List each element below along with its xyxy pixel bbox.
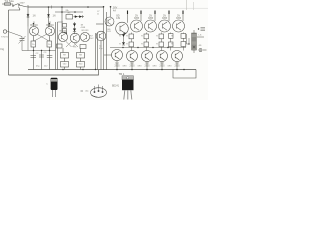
svg-text:33k: 33k (65, 10, 69, 12)
svg-text:R: R (156, 36, 158, 38)
svg-text:775mV: 775mV (1, 37, 8, 39)
svg-text:3055: 3055 (162, 18, 168, 20)
wire x28 lower (27, 27, 29, 51)
diode D6 (73, 29, 76, 32)
svg-text:1k2: 1k2 (90, 38, 94, 40)
wire T1 T2 collectors (34, 24, 50, 27)
diode D8 (122, 42, 125, 45)
node rail junction x88 (87, 6, 89, 8)
wire mid border stub (96, 23, 104, 25)
svg-text:R8: R8 (79, 55, 83, 57)
svg-text:R: R (119, 44, 121, 46)
svg-text:1N: 1N (32, 14, 35, 17)
svg-text:2955: 2955 (174, 66, 180, 68)
wire second rail (55, 11, 83, 13)
svg-text:0R3: 0R3 (168, 65, 173, 67)
svg-text:2955: 2955 (159, 66, 165, 68)
resistor R23 (169, 34, 174, 39)
svg-text:R: R (119, 36, 121, 38)
svg-text:0R3: 0R3 (123, 65, 128, 67)
svg-text:1n: 1n (97, 13, 99, 15)
transistor T10 output (145, 20, 157, 32)
svg-text:3055: 3055 (176, 18, 182, 20)
svg-text:TR 1: TR 1 (119, 72, 125, 76)
svg-text:0R3: 0R3 (153, 65, 158, 67)
pin T8 (127, 11, 129, 23)
svg-text:ebc: ebc (85, 90, 89, 92)
resistor R22 (159, 34, 164, 39)
wire T1 collector (48, 7, 50, 27)
svg-text:1k: 1k (48, 44, 51, 46)
fuse F1 (4, 3, 11, 5)
wire mid border vertical A (103, 6, 105, 70)
diode D2 (47, 14, 50, 17)
svg-text:3055: 3055 (134, 18, 140, 20)
wire inner box top (58, 21, 64, 23)
transistor T17 output low (172, 51, 183, 62)
capacitor elko photo (51, 78, 58, 90)
wire mains to rail (20, 5, 29, 7)
resistor R14 (61, 62, 69, 68)
wire ground rail (28, 69, 196, 71)
transistor T11 output (159, 20, 171, 32)
wire bottom-right box (173, 70, 196, 79)
diode D5 (74, 22, 76, 34)
svg-text:241: 241 (107, 31, 111, 33)
transistor T5 (70, 33, 80, 43)
svg-text:R: R (156, 44, 158, 46)
transistor T3 (58, 32, 67, 41)
svg-text:R6: R6 (74, 46, 78, 48)
svg-text:820: 820 (79, 64, 83, 66)
wire switch down to border (19, 7, 21, 11)
transistor TO-220 photo (122, 76, 134, 80)
transistor T8 output (116, 22, 129, 35)
transistor T4 (80, 32, 89, 41)
transistor T13 output low (112, 50, 123, 61)
wire left border vertical (8, 10, 10, 75)
svg-text:47µ: 47µ (36, 65, 40, 67)
svg-text:R: R (141, 36, 143, 38)
transistor T15 output low (142, 51, 153, 62)
svg-text:R: R (141, 44, 143, 46)
transistor T9 output (131, 20, 143, 32)
wire feedback rail (22, 50, 56, 52)
svg-text:C2: C2 (36, 53, 40, 55)
wire top rail (28, 6, 104, 8)
svg-text:0R3: 0R3 (138, 65, 143, 67)
node ground junctions left (95, 69, 96, 70)
svg-text:4A: 4A (113, 10, 116, 13)
pin T12 (182, 11, 184, 22)
terminal speaker top (201, 28, 206, 31)
resistor R15 (77, 62, 85, 68)
wire top-left border stub (9, 9, 21, 11)
resistor R4 (49, 36, 51, 41)
diode D7 (123, 33, 125, 42)
terminal output (199, 49, 202, 52)
transistor T14 output low (127, 51, 138, 62)
svg-text:Fig: Fig (1, 47, 5, 51)
pin T9 (140, 11, 142, 22)
svg-text:BC546: BC546 (46, 24, 54, 27)
wire base rail (104, 54, 112, 56)
resistor R10 (57, 44, 63, 48)
svg-text:R9: R9 (63, 55, 67, 57)
transistor T6 (96, 31, 106, 41)
wire rail tick (51, 6, 53, 9)
wire center verticals (56, 22, 102, 70)
svg-text:240V: 240V (19, 3, 25, 5)
svg-text:Tr1 S1a: Tr1 S1a (4, 0, 14, 3)
capacitor C2 (41, 50, 43, 70)
wire diff pair cross (34, 34, 49, 41)
svg-text:1k: 1k (32, 44, 35, 46)
svg-text:4148: 4148 (81, 27, 86, 29)
wire faint fold line right (112, 7, 208, 9)
labels (1, 0, 202, 92)
svg-text:C3: C3 (44, 52, 48, 54)
diode D1 (27, 14, 29, 19)
capacitor C3 (31, 56, 37, 58)
wire output right (197, 36, 204, 38)
svg-text:47p: 47p (99, 48, 103, 50)
wire bottom border (9, 70, 99, 75)
capacitor C4 (47, 56, 53, 58)
svg-text:2k2: 2k2 (44, 65, 48, 67)
input jack J1 (3, 30, 6, 33)
resistor R11 (80, 45, 86, 49)
svg-text:1N: 1N (52, 14, 55, 17)
svg-text:BD241: BD241 (112, 85, 120, 87)
resistor R24 power hatched (192, 33, 197, 50)
svg-text:4Ω: 4Ω (199, 45, 202, 47)
svg-text:BC546: BC546 (30, 24, 38, 27)
svg-text:2955: 2955 (129, 66, 135, 68)
svg-text:LS: LS (199, 35, 202, 37)
transistor TO-92 photo (91, 88, 107, 98)
capacitor C1 (21, 37, 23, 39)
svg-text:R: R (126, 44, 128, 46)
svg-text:BD139: BD139 (82, 30, 89, 32)
transistor T16 output low (157, 51, 168, 62)
wire rail2 drop x62 (61, 7, 63, 33)
resistor R3 (33, 36, 35, 41)
wire output columns (131, 33, 183, 51)
svg-text:C: C (46, 83, 48, 85)
svg-text:560: 560 (63, 64, 67, 66)
resistor R6b (63, 29, 67, 33)
wire bottom row drops (117, 61, 177, 70)
wire mid border vertical B (106, 12, 108, 70)
diode D4 (79, 15, 82, 18)
svg-text:3055: 3055 (148, 18, 154, 20)
resistor R21 (144, 34, 149, 39)
resistor R20 (129, 34, 134, 39)
trimmer arrow P1 (19, 36, 26, 44)
pin T11 (168, 11, 170, 22)
svg-text:2955: 2955 (144, 66, 150, 68)
resistor R6a (63, 24, 67, 28)
svg-text:BC556: BC556 (60, 30, 67, 32)
resistor R23b (181, 34, 186, 39)
transistor T2 (45, 26, 54, 35)
pin T10 (154, 11, 156, 22)
wire corner right (187, 34, 190, 44)
inductor L1 (66, 42, 78, 48)
resistor R12 (61, 53, 69, 59)
svg-text:139: 139 (116, 18, 121, 20)
transistor T7 driver (105, 17, 114, 26)
transistor T1 (29, 26, 38, 35)
transistor T12 output (173, 20, 185, 32)
resistor R13 (77, 53, 85, 59)
svg-text:2955: 2955 (114, 66, 120, 68)
wire left input drop (27, 5, 29, 27)
wire speaker leads top right (186, 0, 188, 10)
svg-text:R: R (126, 36, 128, 38)
switch S1 (14, 4, 19, 6)
wire rail2 to T7 (110, 6, 112, 17)
resistor R5 (66, 15, 73, 20)
diode D3 (74, 16, 85, 18)
